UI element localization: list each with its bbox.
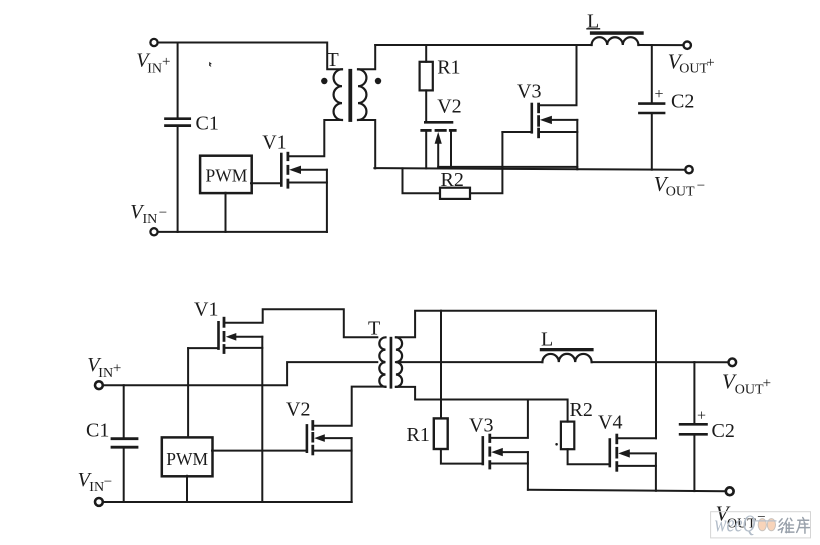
svg-text:R1: R1 bbox=[407, 424, 430, 446]
svg-text:R2: R2 bbox=[441, 169, 464, 191]
svg-text:+: + bbox=[697, 408, 706, 425]
svg-text:R2: R2 bbox=[570, 399, 593, 421]
svg-text:V1: V1 bbox=[194, 299, 218, 321]
svg-text:+: + bbox=[162, 54, 170, 70]
svg-text:−: − bbox=[697, 178, 705, 194]
svg-text:+: + bbox=[113, 360, 121, 376]
svg-text:L: L bbox=[587, 11, 599, 33]
svg-text:C1: C1 bbox=[196, 113, 219, 135]
svg-text:T: T bbox=[327, 49, 339, 71]
svg-text:R1: R1 bbox=[437, 57, 460, 79]
svg-text:V2: V2 bbox=[437, 95, 461, 117]
svg-text:V3: V3 bbox=[469, 415, 493, 437]
svg-text:PWM: PWM bbox=[166, 449, 208, 469]
svg-text:V1: V1 bbox=[262, 131, 286, 153]
svg-text:V3: V3 bbox=[517, 81, 541, 103]
svg-text:IN: IN bbox=[147, 61, 162, 76]
svg-text:+: + bbox=[655, 86, 664, 103]
svg-text:C2: C2 bbox=[712, 420, 735, 442]
svg-text:IN: IN bbox=[143, 212, 158, 227]
svg-text:−: − bbox=[104, 474, 112, 490]
svg-text:OUT: OUT bbox=[679, 61, 708, 76]
svg-text:IN: IN bbox=[89, 480, 104, 495]
svg-text:PWM: PWM bbox=[206, 165, 248, 185]
svg-text:−: − bbox=[159, 205, 167, 221]
svg-text:L: L bbox=[541, 329, 553, 351]
svg-text:+: + bbox=[706, 55, 714, 71]
svg-text:C1: C1 bbox=[86, 420, 109, 442]
svg-text:+: + bbox=[763, 376, 771, 392]
svg-text:V4: V4 bbox=[598, 412, 622, 434]
svg-text:IN: IN bbox=[98, 366, 113, 381]
svg-text:OUT: OUT bbox=[666, 185, 695, 200]
svg-text:T: T bbox=[368, 318, 380, 340]
svg-text:C2: C2 bbox=[671, 91, 694, 113]
svg-text:OUT: OUT bbox=[735, 383, 764, 398]
svg-text:V2: V2 bbox=[286, 399, 310, 421]
svg-text:weeQ: weeQ bbox=[715, 512, 756, 538]
